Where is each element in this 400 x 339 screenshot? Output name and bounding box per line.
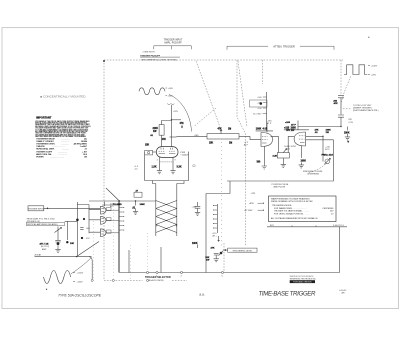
tube V2B [100,216,119,224]
ground: below C18 [195,211,200,215]
svg-text:+50V: +50V [168,88,174,90]
tube V3B [294,132,306,146]
svg-text:+500: +500 [257,97,261,99]
svg-text:2.2K: 2.2K [273,156,278,158]
capacitor C28 [338,115,354,127]
svg-text:25K: 25K [209,142,214,144]
svg-text:47K: 47K [211,247,215,250]
node: supply junction [171,119,172,120]
resistor R41 values [322,153,334,156]
svg-text:4-25: 4-25 [263,127,268,130]
wire: dashed divider at x=237 [237,60,245,246]
label: ATN arrow [250,202,265,205]
svg-text:+100: +100 [257,108,261,110]
wire: V3B grid stub [288,136,294,152]
svg-text:47K: 47K [162,138,167,141]
svg-text:ATK: ATK [334,102,339,105]
label: below stage box [272,184,289,189]
capacitor C12 to ground [132,201,145,210]
wire: dashed linkage diagonals to trigger pot [195,61,248,129]
wire: dashed curve from square wave to node [341,76,351,108]
svg-text:ATT. 7-45: ATT. 7-45 [40,243,50,246]
svg-text:9: 9 [175,159,176,161]
ground: V3A cathode [262,165,267,169]
resistor R15 47K [180,122,185,128]
svg-text:FREQ: FREQ [322,154,328,156]
svg-text:. . . . . . . . . . . . .: . . . . . . . . . . . . . [50,157,64,159]
label: AT 150 arrow [245,209,265,212]
label: from cathode follower note [26,217,64,226]
svg-text:ALL VOLTAGES MEASURED WITH NO: ALL VOLTAGES MEASURED WITH NO SIGNAL IN [271,217,318,220]
svg-text:+185: +185 [194,135,200,137]
svg-text:TRIGGER INPUT: TRIGGER INPUT [28,208,44,210]
resistor R32 cathode V3A [257,147,265,165]
wire: right return vertical [339,227,341,273]
node: input junction [47,208,49,210]
wire: input selector column [76,202,78,256]
wire: turn down to boundary [89,257,92,280]
wire: dotted link x=130.5 [130,245,132,280]
potentiometer R36 sync adj [273,146,297,158]
wire: box to delay line left [153,181,156,184]
tube V2C [100,229,119,237]
node: bus pin 2 [156,271,158,277]
capacitor C4 coupling [76,218,91,240]
wire: V1 stage shield box [145,152,189,181]
resistor R43 180K [344,127,350,136]
bracket: TRIGGER INPUT AMPL PICKOFF [154,38,192,49]
wire: dashed drop at x=254 [262,60,264,84]
wire: pot to V2 grid [239,137,261,140]
wire: selector top bus [89,200,156,202]
svg-text:TRIGGERING MODE:: TRIGGERING MODE: [272,205,292,207]
wire: ground bus bottom [119,272,339,274]
svg-text:CENTERING: CENTERING [307,174,319,176]
label: +245 [325,147,330,152]
svg-text:TRIGGER VOLTAGE NORMAL . . . .: TRIGGER VOLTAGE NORMAL . . . . . . [274,210,309,213]
svg-text:FOR LEVEL SIGNAL POSITION . .: FOR LEVEL SIGNAL POSITION . . . . . [274,212,309,215]
resistor R31 plate V3A [256,127,268,130]
wire: linkage dots below pot [220,142,222,246]
svg-text:100K: 100K [256,128,262,130]
wire: dashed divider lower at x=224 [223,243,225,271]
svg-text:1M: 1M [229,142,232,144]
svg-text:-150V: -150V [77,281,83,283]
label: date and initials [339,290,347,294]
svg-text:180K: 180K [344,133,350,135]
wire: box to delay line right [177,181,184,184]
svg-text:(BLACK KNOB): (BLACK KNOB) [148,279,164,282]
wire: lower input run [35,253,92,257]
svg-text:ADJ: ADJ [286,147,290,150]
wire: tube row top feed [102,202,119,206]
svg-text:SEE (THRESHOLD LEVEL SETTING): SEE (THRESHOLD LEVEL SETTING) [141,59,177,61]
node: bus pin 3 [146,271,148,273]
svg-text:+150V: +150V [77,273,84,275]
svg-text:4: 4 [157,159,158,161]
node: feedthrough ticks [167,103,174,106]
ground: below C19 [214,257,219,261]
resistor R26 100K [192,243,198,248]
svg-text:ADJ: ADJ [329,153,334,156]
waveform: square wave top right [344,65,378,77]
svg-text:AT 150V: AT 150V [245,209,254,212]
label: control settings list [36,137,88,158]
ground: pot R36 [281,158,286,167]
wire: upper right run y=126.5 [298,126,341,128]
svg-text:AT P: AT P [325,148,330,151]
svg-text:10K: 10K [70,243,74,245]
label: important note paragraph [35,120,91,138]
wire: diagonal feed to selector [106,188,119,201]
label: left of selector bus [110,204,114,209]
resistor R37 cathode V3B [301,146,307,164]
waveform: large sine bottom left [44,271,84,284]
stamp: reproduction restricted [290,276,317,283]
svg-text:AT P: AT P [267,122,272,125]
wire: V3A plate feed [256,124,273,133]
wire: V1 plate supply drop [162,105,172,147]
svg-text:DC ONLY: DC ONLY [253,113,262,115]
wire: dashed curve trimmer to label [309,164,326,173]
wire: dotted mechanical link x=93.6 [93,221,95,280]
svg-text:+100V: +100V [371,66,378,68]
wire: V3B plate feed [284,121,309,130]
potentiometer R20 trigger level [207,127,239,139]
annotation box: waveforms and voltage readings [269,196,337,222]
resistor R27 10K [205,247,224,262]
capacitor C19 [214,253,219,257]
svg-text:AMPLITUDE CAL.: AMPLITUDE CAL. [36,153,52,156]
wire: resistor to plate node [161,135,163,146]
svg-text:47K: 47K [218,127,223,130]
svg-text:100K: 100K [192,243,198,245]
label: grid resistor values [134,145,150,171]
wire: chassis boundary dashed top [104,59,343,61]
wire: chassis boundary dashed bottom-left [104,279,187,281]
wire: fork up to tube D [77,242,100,257]
svg-text:AS REQUIRED: AS REQUIRED [74,143,88,146]
svg-text:3.3K: 3.3K [177,166,182,169]
node: grid pin box [145,150,157,155]
svg-text:47K: 47K [180,122,185,125]
svg-text:(2): (2) [193,165,196,168]
tube V2A cathode follower [100,206,119,214]
svg-text:IMPORTANT: IMPORTANT [36,117,52,120]
capacitor C1 variable [40,227,62,251]
node: top-right speck [368,37,369,38]
wire: chassis boundary dashed left vertical [103,60,105,280]
svg-text:220K: 220K [153,128,159,130]
label: V3A grid voltages [244,142,249,147]
node: bus pin 6 [221,271,223,277]
label: TRIGGERING LEVEL boxed [225,248,257,252]
svg-text:PORTLAND OREGON: PORTLAND OREGON [293,281,312,284]
svg-text:4-30-52 PLL: 4-30-52 PLL [333,225,345,227]
svg-text:(INSTRUMENT BACK PNL): (INSTRUMENT BACK PNL) [353,109,379,112]
svg-text:WAVEFORMS AND VOLTAGE READINGS: WAVEFORMS AND VOLTAGE READINGS [271,198,310,201]
bracket: ATTEN TRIGGER [227,44,334,49]
resistor R14 plate load [153,125,165,136]
node: junction y=126.5 [340,126,341,127]
label: pot lower values [209,142,232,144]
svg-text:1M: 1M [228,128,231,130]
svg-text:ATN: ATN [250,202,255,205]
node: junction dots on selector bus [119,200,136,201]
resistor R11 47ohm [134,190,142,198]
node: bus pin 4 [180,271,182,277]
capacitor C27 [333,96,344,115]
svg-text:AND PULSE: AND PULSE [274,185,286,188]
svg-text:2 SEE NOTE: 2 SEE NOTE [143,52,156,54]
svg-text:STABILITY PRESET: STABILITY PRESET [36,140,55,143]
svg-text:FOR WAVEFORMS . . . . . . . .: FOR WAVEFORMS . . . . . . . . . . . . . [274,207,307,210]
svg-text:ATTEN. TRIGGER: ATTEN. TRIGGER [273,44,295,48]
svg-text:a.a.: a.a. [199,292,205,296]
svg-text:TRIGGER INPUT: TRIGGER INPUT [164,38,183,41]
ground: below R43 [345,136,350,143]
wire: dashed drop to sq-wave note [340,60,342,95]
wire: input to grid bus [44,207,100,209]
wire: note to selector column [65,220,78,222]
node: boundary corner junction [103,60,105,62]
label: TRIGGER SELECTOR [145,276,171,282]
wire: V1 plate to trigger pot [177,136,208,138]
capacitor C22 [260,102,263,105]
node: wafer label frame [250,100,268,107]
label: frequency level centering [303,171,324,176]
label: trigger pickoff note [140,52,180,62]
svg-text:AT P: AT P [291,124,296,127]
svg-text:◆ CONCENTRICALLY MOUNTED: ◆ CONCENTRICALLY MOUNTED [40,96,86,99]
waveform: input sine top left [139,88,174,98]
label: to pin 14 note [343,105,379,112]
wire: stage box bottom [227,180,334,182]
tube V3A [261,133,273,147]
node: boundary junction circles [91,279,148,281]
wire: tube feeders [77,205,100,234]
ground: V1 cathode left [157,169,162,174]
svg-text:100K: 100K [301,161,307,163]
wire: stage box right edge [306,140,334,181]
label: +185 at P [267,121,273,126]
resistor R16 grid stopper [162,137,177,141]
resistor R3 10K [66,221,74,245]
wire: V3A plate stub right [271,136,279,152]
svg-text:TYPE 53A OSCILLOSCOPE: TYPE 53A OSCILLOSCOPE [58,293,102,297]
svg-text:CENTERED: CENTERED [322,208,334,210]
wire: branch to screen [172,119,182,121]
capacitor C30 trimmer [324,158,330,164]
ground: below C1 [55,248,60,253]
wire: switch frame verticals [129,247,161,273]
svg-text:AMP: AMP [42,248,47,251]
wire: arc from sine to V1 grid [169,95,192,132]
svg-text:100K: 100K [140,204,146,206]
svg-text:+225: +225 [173,111,179,113]
capacitor C18 [192,202,201,211]
node: stray dot [46,289,47,290]
resistor R33 plate V3B [284,122,296,132]
inductor T1 delay-line lattice [156,184,177,237]
svg-text:AT P: AT P [244,144,249,147]
wire: revision rule under notes box [267,225,347,227]
wire: V3B plate to right node [306,136,323,161]
ground: V1 cathode right [170,169,175,174]
resistor R18 cathode right [173,164,182,170]
svg-text:TRIGGERING LEVEL: TRIGGERING LEVEL [232,250,253,252]
svg-text:A IN AT: A IN AT [35,253,42,256]
ground: below C12 [133,210,138,214]
wire: coupling column to V3A plate [263,92,267,131]
ground: V3B cathode [299,164,304,168]
label: selector tap labels [253,97,262,116]
svg-text:WERE OBTAINED WITH CONTROLS SE: WERE OBTAINED WITH CONTROLS SET AT: [271,200,313,203]
node: junction at x=323 [322,136,323,137]
svg-text:25K: 25K [145,145,150,147]
label: +11.5 arrow [212,233,220,242]
svg-text:HORIZONTAL DISPL: HORIZONTAL DISPL [36,148,55,151]
tube V1 duotriode envelope [156,147,189,164]
wire: dotted link x=113.3 [112,206,114,279]
resistor R17 cathode [152,164,160,170]
svg-text:TIME-BASE TRIGGER: TIME-BASE TRIGGER [259,291,317,298]
wire: switch wafer strip x=217.4 [213,204,217,233]
wire: sine to input run curve [71,258,92,275]
resistor R40 values [315,129,332,135]
svg-text:47K 1W: 47K 1W [286,129,295,132]
wire: rotor linkage dotted [147,233,149,272]
wire: switch wafer strip x=119 [113,201,124,273]
svg-text:POWER: POWER [36,157,44,159]
svg-text:AMPL. PICKOFF: AMPL. PICKOFF [164,42,182,45]
svg-text:+25V: +25V [371,75,377,77]
svg-text:1.5K: 1.5K [152,166,157,169]
connector J1 TRIGGER INPUT [28,206,45,211]
wire: selector link column [206,181,230,273]
svg-text:+100: +100 [285,122,291,124]
svg-text:TRIGGER SELECTOR: TRIGGER SELECTOR [145,276,171,279]
